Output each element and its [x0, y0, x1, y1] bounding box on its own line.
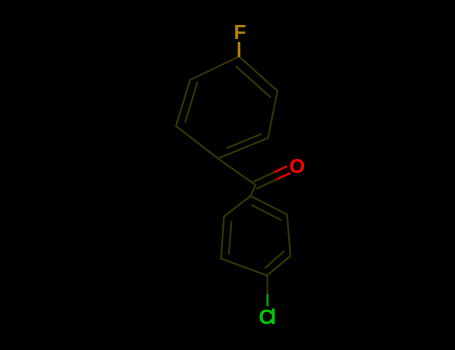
ring A inner line of double bond A3-A4 — [227, 134, 261, 148]
benzene ring A (4-fluorophenyl) outer edges — [176, 57, 278, 159]
ring A inner line of double bond A1-A2 — [237, 67, 271, 97]
wire B2-B3 right — [287, 215, 291, 257]
ring B inner line of double bond B5-B6 — [229, 221, 232, 254]
ring B inner line of double bond B3-B4 — [265, 252, 284, 268]
wire A4 to carbonyl C — [218, 159, 278, 197]
wire B5-B6 left — [221, 217, 224, 259]
wire A2-A3 right — [268, 91, 278, 138]
wire B1-B2 top-right — [251, 196, 288, 215]
svg-text:F: F — [234, 22, 246, 44]
wire A3-A4 bottom-right — [218, 138, 268, 159]
ring A inner line of double bond A5-A6 — [185, 83, 197, 123]
svg-text:O: O — [289, 156, 305, 178]
carbonyl C=O double bond, red O-side halves — [275, 167, 290, 179]
wire A4-A5 bottom-left — [176, 126, 218, 159]
svg-text:Cl: Cl — [259, 306, 276, 329]
wire A1-A2 top-right — [239, 57, 278, 92]
wire B6-B1 top-left — [224, 196, 251, 217]
carbonyl C=O double bond, olive C-side halves — [254, 172, 275, 182]
bond ring B4 to Cl, olive half — [266, 276, 268, 295]
benzene ring B (4-chlorophenyl) outer edges — [221, 196, 291, 295]
wire A5-A6 left — [176, 80, 190, 126]
bond C-F (gold stub) — [238, 43, 241, 56]
wire B3-B4 bottom-right — [267, 256, 291, 276]
wire A6-A1 top-left — [190, 57, 239, 81]
bond carbonyl C to ring B top — [251, 185, 256, 196]
bond to Cl (green half) — [267, 295, 269, 306]
wire B4-B5 bottom-left — [221, 259, 267, 276]
ring B inner line of double bond B1-B2 — [252, 205, 281, 220]
